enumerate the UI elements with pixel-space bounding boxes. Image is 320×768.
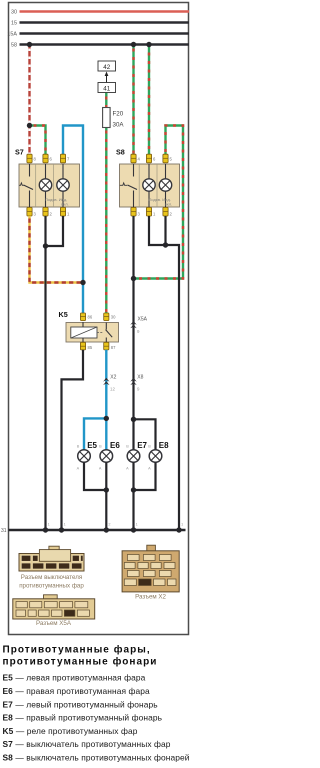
svg-text:12: 12: [110, 387, 115, 392]
legend title: [3, 644, 158, 668]
wire to E8 (black): [134, 419, 156, 450]
svg-text:30: 30: [111, 315, 116, 320]
svg-text:В: В: [148, 445, 151, 449]
svg-text:31: 31: [1, 528, 7, 534]
wire S8 pin2 to ground bus (black): [166, 216, 180, 530]
svg-text:А: А: [77, 467, 80, 471]
node ground E7/E8: [131, 527, 136, 532]
svg-text:E6: E6: [110, 441, 120, 450]
node S7 feed split: [27, 123, 32, 128]
switch contact S7: [19, 164, 33, 207]
node E7/E8 ground join: [131, 487, 136, 492]
wire S7 pin3 to blue node (yellow-red dashed): [30, 216, 84, 283]
K5 contact: [106, 323, 113, 343]
lamp S8 indicator: [159, 164, 172, 207]
K5 top terminals 86 30: [80, 313, 116, 321]
bus 58: [11, 43, 189, 49]
svg-text:Разъем выключателя: Разъем выключателя: [21, 574, 82, 581]
wire E8 to ground join (black): [134, 462, 156, 490]
legend entries: [3, 673, 190, 763]
svg-text:А: А: [126, 467, 129, 471]
wire S7 pin7 to K5 pin86 (blue): [63, 126, 83, 315]
node S8 ground join: [163, 242, 168, 247]
wire S8 pin3 down to fog lamps (black): [132, 216, 134, 419]
svg-text:K5: K5: [59, 310, 68, 319]
node ground S7: [43, 527, 48, 532]
node S8 loop to pin3 wire: [131, 276, 136, 281]
node black split E7/E8: [131, 417, 136, 422]
svg-text:А: А: [148, 467, 151, 471]
svg-text:K5 — реле противотуманных фар: K5 — реле противотуманных фар: [3, 726, 138, 736]
svg-text:E7 — левый противотуманный фон: E7 — левый противотуманный фонарь: [3, 699, 159, 709]
wire E6 to ground bus (black): [105, 462, 107, 530]
box 42: [98, 61, 116, 71]
svg-text:F20: F20: [113, 111, 124, 118]
svg-text:E5 — левая противотуманная фар: E5 — левая противотуманная фара: [3, 673, 146, 683]
svg-text:Разъем X5A: Разъем X5A: [36, 620, 72, 627]
svg-text:S8 — выключатель противотуманн: S8 — выключатель противотуманных фонарей: [3, 753, 190, 763]
svg-text:Противотуманные фары,: Противотуманные фары,: [3, 644, 151, 656]
svg-text:Подсв.: Подсв.: [45, 197, 58, 202]
svg-text:В: В: [126, 445, 129, 449]
wire 58 to S8 pin4 (green-red dashed): [132, 45, 134, 157]
svg-text:противотуманные фонари: противотуманные фонари: [3, 656, 158, 668]
lamp S7 backlight: [39, 164, 57, 207]
wire S8 pin1 joins pin2 (black): [149, 216, 166, 245]
node 58/S8 pin6 junction: [146, 42, 151, 47]
svg-text:X2: X2: [110, 375, 116, 381]
ground bus 31: [1, 528, 186, 534]
fuse F20 30A: [103, 108, 125, 129]
svg-text:85: 85: [88, 345, 93, 350]
connector marker X5A pin9: [130, 317, 147, 335]
svg-text:1: 1: [181, 523, 183, 527]
svg-text:E8: E8: [159, 441, 169, 450]
node ground K5: [59, 527, 64, 532]
node E5/E6 ground join: [104, 487, 109, 492]
svg-text:вкл.: вкл.: [165, 201, 172, 206]
switch contact S8: [120, 164, 137, 207]
svg-text:86: 86: [88, 315, 93, 320]
svg-text:S7: S7: [15, 148, 24, 157]
svg-text:41: 41: [103, 85, 110, 92]
lamp S8 backlight: [143, 164, 161, 207]
switch unit S8: [116, 148, 180, 208]
svg-text:А: А: [99, 467, 102, 471]
wire E7 to ground bus (black): [132, 462, 134, 530]
svg-text:1: 1: [64, 523, 66, 527]
lamp E5: [77, 441, 98, 470]
svg-text:87: 87: [111, 345, 116, 350]
svg-text:вкл.: вкл.: [61, 201, 68, 206]
svg-text:X5A: X5A: [138, 317, 148, 323]
connector X2: [122, 545, 179, 600]
node S7 ground join: [43, 243, 48, 248]
connector of fog lamp switch: [19, 546, 84, 589]
node ground E5/E6: [104, 527, 109, 532]
bus 30: [11, 10, 189, 16]
arrow 41 to 42: [105, 72, 109, 83]
svg-text:Разъем X2: Разъем X2: [135, 594, 166, 601]
node 58/S7 junction: [27, 42, 32, 47]
S8 bottom terminals pins 3 1 2: [131, 207, 173, 216]
svg-text:30A: 30A: [113, 122, 125, 129]
svg-text:S8: S8: [116, 148, 125, 157]
schematic frame: [9, 3, 189, 635]
S8 top terminals pins 4 6 5: [131, 154, 173, 163]
svg-text:30: 30: [11, 10, 17, 16]
node blue split E5/E6: [104, 416, 109, 421]
svg-text:15A: 15A: [7, 32, 17, 38]
svg-text:E5: E5: [87, 441, 97, 450]
svg-text:E6 — правая противотуманная фа: E6 — правая противотуманная фара: [3, 686, 151, 696]
lamp E7: [126, 441, 147, 470]
wire to E7 (black): [132, 419, 134, 450]
relay K5: [59, 310, 119, 342]
svg-text:противотуманных фар: противотуманных фар: [19, 583, 84, 590]
S7 top terminals pins 8 6 7: [27, 154, 70, 163]
connector X5A: [13, 595, 95, 627]
svg-text:E7: E7: [137, 441, 147, 450]
node 58/S8 pin4 junction: [131, 42, 136, 47]
K5 coil: [71, 322, 97, 342]
connector marker X8 pin9: [130, 375, 143, 392]
K5 bottom terminals 85 87: [80, 342, 116, 350]
svg-text:2: 2: [108, 523, 110, 527]
svg-text:В: В: [77, 445, 80, 449]
lamp E6: [99, 441, 120, 470]
wire branch to S7 pin6 (green-red dashed): [30, 126, 46, 157]
wire E5 to ground join (black): [84, 462, 106, 490]
svg-text:58: 58: [11, 43, 17, 49]
svg-text:1: 1: [48, 523, 50, 527]
svg-text:1: 1: [136, 523, 138, 527]
K5 mechanical link: [97, 332, 104, 334]
svg-text:S7 — выключатель противотуманн: S7 — выключатель противотуманных фар: [3, 739, 171, 749]
node ground S8: [176, 527, 181, 532]
svg-text:В: В: [99, 445, 102, 449]
wire K5 pin87 to front fog lamps (blue): [84, 350, 106, 450]
wire S8 pin5 loop to rear fog feed (green-red dashed): [134, 126, 184, 279]
box 41: [98, 83, 116, 93]
svg-text:15: 15: [11, 21, 17, 27]
svg-text:Подсв.: Подсв.: [149, 197, 162, 202]
wire S7 pin1 joins pin2 (black): [46, 216, 64, 246]
S7 bottom terminals pins 3 2 1: [27, 207, 70, 216]
bus 15A: [7, 32, 189, 38]
wire box41 through F20 to K5 pin30 (green-red dashed): [105, 93, 107, 315]
connector marker X2 pin12: [103, 375, 117, 392]
bus 15: [11, 21, 189, 27]
svg-text:E8 — правый противотуманный фо: E8 — правый противотуманный фонарь: [3, 713, 163, 723]
lamp E8: [148, 441, 169, 470]
switch unit S7: [15, 148, 80, 208]
wire 58 to S7 pin8 (red-white dashed): [28, 45, 30, 157]
node blue/yellow junction: [80, 280, 85, 285]
svg-text:X8: X8: [137, 375, 143, 381]
wire K5 pin85 to ground bus (black): [62, 350, 84, 530]
lamp S7 indicator: [57, 164, 69, 207]
wire 58 to S8 pin6 (green-red dashed): [148, 45, 150, 157]
ground point labels: [48, 523, 184, 527]
svg-text:42: 42: [103, 64, 110, 71]
wire S7 pin2 to ground bus (black): [44, 216, 46, 530]
